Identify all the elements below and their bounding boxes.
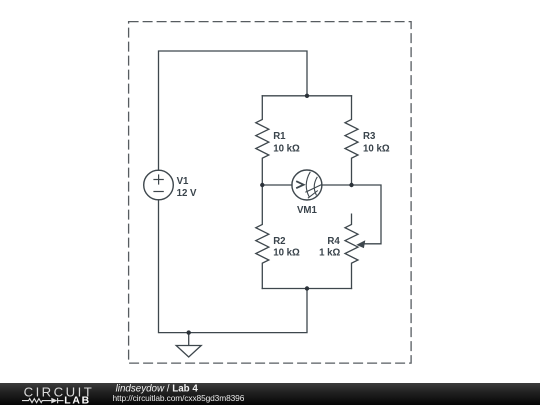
svg-text:12 V: 12 V xyxy=(177,188,197,199)
footer bar xyxy=(0,383,540,405)
junction node top xyxy=(305,94,309,98)
svg-text:LAB: LAB xyxy=(64,396,91,405)
junction node left (VM1-left rail) xyxy=(260,183,264,187)
resistor R1 xyxy=(256,96,269,185)
labels xyxy=(177,131,390,259)
dashed selection border xyxy=(129,22,412,364)
VM1 tick xyxy=(308,191,318,199)
wire bridge bottom rail xyxy=(262,288,351,290)
resistor R3 xyxy=(345,96,358,185)
svg-text:10 kΩ: 10 kΩ xyxy=(273,143,300,154)
ground symbol xyxy=(176,346,201,358)
svg-text:10 kΩ: 10 kΩ xyxy=(273,248,300,259)
voltmeter VM1 body xyxy=(292,170,322,200)
wire VM1 left xyxy=(262,184,292,186)
wire bottom return to V1 xyxy=(159,200,308,333)
resistor R2 xyxy=(256,185,269,289)
V1 minus sign xyxy=(153,191,163,193)
svg-text:V1: V1 xyxy=(177,176,189,187)
voltage source V1 body xyxy=(144,170,174,200)
wire VM1 right xyxy=(322,184,352,186)
svg-text:R4: R4 xyxy=(327,236,340,247)
VM1 meter glyph xyxy=(296,172,322,198)
VM1 needle xyxy=(305,184,322,192)
potentiometer R4 body xyxy=(345,214,358,288)
V1 plus sign xyxy=(153,174,163,191)
svg-text:10 kΩ: 10 kΩ xyxy=(363,143,390,154)
svg-text:R1: R1 xyxy=(273,131,286,142)
junction node right (VM1-right rail) xyxy=(349,183,353,187)
junction node ground xyxy=(187,330,191,334)
wire R4 wiper from VM node xyxy=(352,185,382,244)
svg-text:R3: R3 xyxy=(363,131,376,142)
VM1 scale arc right xyxy=(314,177,317,195)
wire V1 top to bridge top junction xyxy=(159,51,308,170)
R4 wiper arrowhead xyxy=(356,240,365,248)
svg-text:R2: R2 xyxy=(273,236,285,247)
svg-text:VM1: VM1 xyxy=(297,205,318,216)
svg-text:1 kΩ: 1 kΩ xyxy=(319,248,340,259)
CircuitLab logo resistor-diode art xyxy=(22,398,64,403)
svg-text:http://circuitlab.com/cxx85gd3: http://circuitlab.com/cxx85gd3m8396 xyxy=(113,393,245,403)
VM1 polarity chevron xyxy=(296,181,303,188)
junction node bottom xyxy=(305,286,309,290)
wire bridge top rail xyxy=(262,95,351,97)
wire ground stub xyxy=(188,333,190,346)
VM1 scale arc left xyxy=(306,172,310,198)
